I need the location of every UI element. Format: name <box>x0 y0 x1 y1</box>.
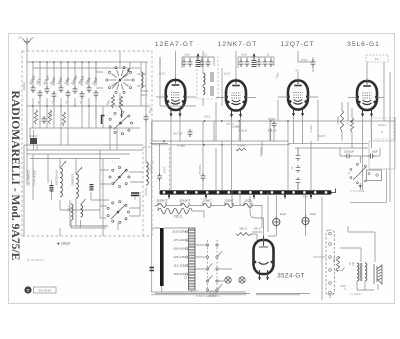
wire rail y143.7 right <box>288 143 368 145</box>
resistor 185ohm heater dropper <box>158 208 192 214</box>
svg-text:12NK7: 12NK7 <box>202 199 212 203</box>
capacitor 50uF <box>368 154 376 159</box>
wires coils lower <box>60 159 106 237</box>
svg-text:126-135: 126-135 <box>173 255 185 259</box>
wires heater string <box>155 206 262 229</box>
resistor 1900 ohm <box>236 233 252 236</box>
tuning gang switch S1 <box>132 79 134 81</box>
grid components above V2 <box>238 57 274 68</box>
svg-text:170-190: 170-190 <box>173 238 185 242</box>
svg-text:A: A <box>381 130 383 134</box>
svg-text:0,5MΩ: 0,5MΩ <box>310 125 313 132</box>
capacitor 50000pF mid <box>201 173 206 181</box>
svg-text:4,41 Ω: 4,41 Ω <box>239 129 248 133</box>
svg-text:12Q7-CT: 12Q7-CT <box>280 41 314 48</box>
filter capacitor 30uF <box>273 218 280 225</box>
svg-text:25000pF: 25000pF <box>344 150 355 154</box>
capacitor 1000pF <box>30 138 37 144</box>
dashed box 12v above V4 <box>366 55 388 62</box>
wire rail y148 right <box>295 147 368 149</box>
chassis bus bar (checkered) <box>160 190 332 194</box>
svg-text:517,75: 517,75 <box>226 123 234 126</box>
wires speaker return <box>357 281 378 290</box>
svg-text:35L6-G1: 35L6-G1 <box>347 41 380 48</box>
svg-text:318,75: 318,75 <box>318 135 326 138</box>
svg-text:25000: 25000 <box>204 117 211 119</box>
svg-text:Ω: Ω <box>344 288 346 291</box>
svg-text:4Ω: 4Ω <box>295 69 298 73</box>
svg-text:600Ω: 600Ω <box>333 257 336 263</box>
svg-text:20μF: 20μF <box>310 212 317 216</box>
svg-text:-38-: -38- <box>17 36 22 40</box>
IF transformer T1 between V1 V2 <box>197 57 218 99</box>
heater filaments <box>158 203 252 208</box>
svg-text:S. ALTOPARL.: S. ALTOPARL. <box>350 190 366 193</box>
wires lower-left rails <box>27 106 143 236</box>
filter capacitor 20uF <box>302 217 309 224</box>
antenna <box>23 38 35 52</box>
band switch S3 <box>127 211 129 213</box>
svg-text:±400Ω: ±400Ω <box>326 293 334 296</box>
svg-text:T: T <box>26 288 29 293</box>
voltage selector wafer switches <box>208 240 218 293</box>
page scan border frame <box>9 34 395 304</box>
bus riser ticks <box>169 195 311 199</box>
wire speaker feed right edge <box>350 169 386 203</box>
wires tube V1 leads <box>156 51 196 190</box>
svg-text:35Z4GT: 35Z4GT <box>156 199 167 203</box>
wires tube V2 leads <box>216 51 256 190</box>
AVC capacitors column <box>296 148 301 190</box>
band switch S1b <box>130 122 132 124</box>
svg-text:200pF: 200pF <box>300 58 308 62</box>
svg-text:10Ω: 10Ω <box>352 262 355 267</box>
wires tone section <box>340 148 380 190</box>
svg-text:12EA7: 12EA7 <box>224 199 234 203</box>
wires tube V3 leads <box>278 51 318 144</box>
bold corner wire left of S1b <box>102 116 105 125</box>
bus end terminal <box>332 188 336 192</box>
iron core marks <box>131 193 139 195</box>
svg-text:GM 28-81: GM 28-81 <box>38 289 52 293</box>
svg-text:517 pF: 517 pF <box>174 132 183 136</box>
svg-text:10⁴: 10⁴ <box>151 160 155 164</box>
padding capacitor 100pF <box>144 114 149 122</box>
vacuum tube V2 12NK7-GT <box>226 81 246 111</box>
output transformer <box>357 263 359 281</box>
vacuum tube V3 12Q7-GT <box>288 81 308 110</box>
svg-text:112-125: 112-125 <box>173 264 184 268</box>
svg-text:112V: 112V <box>159 72 166 76</box>
capacitor 500pF mid-left <box>157 173 162 181</box>
rectifier tube V5 35Z4-GT <box>254 240 274 274</box>
wire rail y121 <box>152 120 395 122</box>
svg-text:COMM. GAMMA 12 V: COMM. GAMMA 12 V <box>196 295 221 298</box>
arrow up above V1 <box>197 53 200 57</box>
wires RF vertical branches <box>33 62 117 150</box>
wire rail y141 <box>152 140 288 142</box>
svg-text:500pF: 500pF <box>163 166 166 174</box>
power transformer core bar <box>160 228 164 286</box>
svg-text:A: A <box>212 292 214 296</box>
svg-text:ONDE M.C.L: ONDE M.C.L <box>33 170 37 187</box>
svg-text:12NK7-GT: 12NK7-GT <box>218 41 258 48</box>
svg-text:318,75: 318,75 <box>268 129 277 133</box>
coil antenna primary <box>141 72 143 88</box>
oscillator coil L2 <box>76 174 78 198</box>
capacitor 500pF <box>42 116 47 124</box>
arrow up above V2 <box>253 53 256 57</box>
wire bottom rails 2 <box>151 294 300 296</box>
capacitor 25000pF <box>344 154 352 159</box>
wires transformer <box>152 121 246 292</box>
resistor 50000 right <box>340 110 343 132</box>
svg-text:210-220V: 210-220V <box>172 230 186 234</box>
selector wafer column right <box>326 230 335 295</box>
wires rectifier <box>250 194 306 236</box>
wire right edge verticals <box>384 62 395 202</box>
vacuum tube V1 12EA7-GT <box>166 80 186 110</box>
coil L5 <box>81 205 83 217</box>
shield box dashed frame (tuner) <box>22 51 152 236</box>
svg-text:170 V: 170 V <box>253 227 261 231</box>
band switch S2 <box>128 176 130 178</box>
resistor 600ohm <box>336 256 339 272</box>
svg-text:—●—: —●— <box>193 289 200 292</box>
junction dots rail 121 <box>204 120 353 122</box>
svg-text:COMMUTAT.: COMMUTAT. <box>27 170 31 187</box>
wires band switches <box>70 150 143 230</box>
svg-text:190 Ω: 190 Ω <box>239 227 247 231</box>
svg-text:50pF: 50pF <box>184 55 190 57</box>
svg-text:N° 57 25.4.2: N° 57 25.4.2 <box>27 258 44 262</box>
oscillator padder coil L3 <box>146 162 148 185</box>
svg-text:12Q5: 12Q5 <box>244 199 252 203</box>
resistor pair below S1 <box>111 95 114 108</box>
resistor 100000 right <box>350 118 353 132</box>
svg-text:MΩ 2: MΩ 2 <box>141 93 148 97</box>
grid components above V1 <box>182 57 214 68</box>
wires tube V4 leads <box>348 62 384 190</box>
wire B+ to output transformer <box>340 226 375 262</box>
svg-text:1000000: 1000000 <box>71 174 75 186</box>
arrow pointer tone switch <box>359 185 362 189</box>
tone switch <box>368 173 370 175</box>
mains capacitor <box>150 268 155 271</box>
svg-text:35Z4-GT: 35Z4-GT <box>277 273 305 280</box>
wire bus risers <box>150 121 352 190</box>
svg-text:50000: 50000 <box>141 89 149 93</box>
svg-text:112V: 112V <box>224 72 231 76</box>
bus junction dots <box>168 195 170 197</box>
wires wafer to transformer <box>188 245 232 281</box>
svg-text:200pF: 200pF <box>22 82 26 90</box>
svg-text:(*) GM-97: (*) GM-97 <box>350 292 362 296</box>
box right lower <box>369 141 395 169</box>
wire extra mid verticals <box>152 57 348 232</box>
loudspeaker <box>374 264 382 284</box>
logo GM <box>24 286 31 293</box>
coil L4 TRC <box>71 204 73 220</box>
trimmer stack above V2 <box>252 57 257 67</box>
svg-text:10⁴: 10⁴ <box>290 166 294 170</box>
svg-text:50000μF: 50000μF <box>198 165 201 175</box>
svg-text:12v: 12v <box>375 57 380 61</box>
wires around switch S1 <box>96 62 146 110</box>
wafer pointer arrows <box>209 251 223 288</box>
mains switch circles <box>225 277 245 283</box>
svg-text:(60): (60) <box>340 284 345 288</box>
bottom center jumper detail <box>155 293 310 295</box>
svg-text:4,5MΩ: 4,5MΩ <box>177 144 186 148</box>
capacitor fixed 100pF lower-left <box>50 186 54 191</box>
svg-text:35L6GT: 35L6GT <box>179 199 190 203</box>
svg-text:50Hz: 50Hz <box>302 197 308 199</box>
svg-text:RADIOMARELLI - Mod. 9A75/E: RADIOMARELLI - Mod. 9A75/E <box>9 91 21 261</box>
svg-text:30μF: 30μF <box>280 212 287 216</box>
trimmer stack above V1 <box>196 57 201 67</box>
svg-text:160μF: 160μF <box>268 117 276 121</box>
junction dots rail <box>163 140 223 146</box>
small zigzag under label <box>236 148 246 150</box>
svg-text:100pF: 100pF <box>241 55 248 57</box>
svg-text:6Ω 41: 6Ω 41 <box>378 123 386 127</box>
svg-text:12EA7-GT: 12EA7-GT <box>155 41 194 48</box>
svg-text:20000pF: 20000pF <box>261 147 263 157</box>
svg-text:10⁵: 10⁵ <box>346 122 350 126</box>
oscillator coil L1 <box>60 168 62 197</box>
small box A bottom <box>210 291 216 296</box>
wire lower-left risers <box>24 106 96 236</box>
svg-text:◆ 180μF: ◆ 180μF <box>57 242 71 246</box>
capacitor fixed lower-mid <box>90 185 94 190</box>
wire rail y144.8 <box>152 144 290 146</box>
wire RF top rails <box>24 51 150 145</box>
svg-text:12 V: 12 V <box>184 276 190 280</box>
trimmer capacitors RF row <box>31 85 36 93</box>
wire vertical right of rectifier <box>321 197 323 300</box>
svg-text:185 Ω: 185 Ω <box>174 215 183 219</box>
power transformer winding <box>189 228 196 290</box>
svg-text:150-160: 150-160 <box>173 247 185 251</box>
junction dots RF rails <box>32 61 97 107</box>
svg-text:AVVOLGIM: AVVOLGIM <box>55 170 59 185</box>
capacitor 200pF above V3 <box>298 57 313 72</box>
svg-text:0,5MΩ: 0,5MΩ <box>237 144 245 148</box>
resistor group below RF row <box>34 110 37 124</box>
vacuum tube V4 35L6-GT <box>357 81 377 110</box>
svg-text:50000Ω: 50000Ω <box>337 116 340 125</box>
speaker connection box 6ohm <box>371 118 394 139</box>
dashed shield line mid <box>169 148 171 190</box>
svg-text:50μF: 50μF <box>372 150 378 154</box>
